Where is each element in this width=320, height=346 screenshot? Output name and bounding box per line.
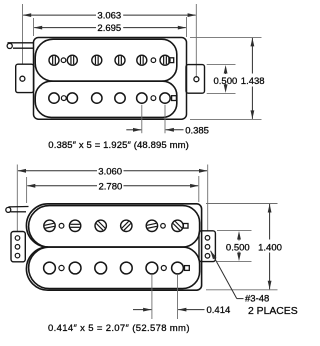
- svg-text:2 PLACES: 2 PLACES: [248, 306, 298, 317]
- slug pole 1 pickup 2: [44, 262, 56, 274]
- svg-text:3.060: 3.060: [98, 166, 122, 177]
- small hole A1: [61, 58, 66, 63]
- screw pole 4: [115, 55, 125, 65]
- small hole C1: [59, 223, 64, 228]
- slug pole 4 pickup 2: [120, 262, 132, 274]
- dimension line 0.385: [126, 129, 141, 131]
- small hole B2: [151, 96, 156, 101]
- pickup 1 top bobbin: [35, 39, 177, 81]
- dimension 1.400 extension lines: [206, 203, 278, 205]
- svg-text:0.385″ x 5 = 1.925″ (48.895 mm: 0.385″ x 5 = 1.925″ (48.895 mm): [48, 140, 189, 151]
- small hole C2: [161, 224, 166, 229]
- dimension line 2.695: [34, 27, 96, 29]
- slug pole 2 pickup 2: [69, 262, 81, 274]
- dimension line 3.060: [18, 170, 97, 172]
- svg-text:1.400: 1.400: [258, 242, 282, 253]
- screw pole 3 pickup 2: [95, 220, 106, 231]
- square marker B: [172, 96, 177, 101]
- slug pole 2: [67, 93, 77, 103]
- small hole A2: [151, 58, 156, 63]
- pickup 2 body outline: [26, 204, 201, 290]
- screw pole 2 pickup 2: [69, 220, 80, 231]
- small hole D2: [161, 266, 166, 271]
- pickup 1 bottom bobbin: [35, 81, 177, 117]
- dimension line 1.400: [269, 204, 271, 240]
- dimension 0.500 bottom arrows: [237, 231, 241, 240]
- dimension line 1.438: [251, 38, 253, 74]
- pickup 2 left mounting tab: [11, 232, 25, 262]
- slug pole 5: [137, 93, 147, 103]
- dimension 2.780 extension line left: [26, 177, 28, 203]
- svg-text:2.695: 2.695: [97, 23, 121, 34]
- screw pole 2: [67, 55, 77, 65]
- pickup 1 left mounting tab: [16, 64, 34, 92]
- dimension line 2.780: [27, 185, 97, 187]
- pickup 2 bottom bobbin: [29, 247, 200, 289]
- slug pole 5 pickup 2: [146, 262, 158, 274]
- slug pole 3: [92, 93, 102, 103]
- dimension 0.414 extension lines: [151, 275, 153, 319]
- pickup 2 right tab holes: [205, 236, 210, 241]
- pickup 2 top bobbin: [29, 206, 200, 248]
- svg-text:0.414″ x 5 = 2.07″ (52.578 mm): 0.414″ x 5 = 2.07″ (52.578 mm): [48, 323, 190, 334]
- pickup 1 left tab screw hole: [20, 76, 25, 81]
- screw pole 5 pickup 2: [146, 220, 157, 231]
- pickup 1 right tab screw hole: [194, 77, 199, 82]
- svg-text:#3-48: #3-48: [245, 294, 269, 305]
- screw pole 1 pickup 2: [44, 220, 55, 231]
- dimension 1.438 extension lines: [190, 36, 262, 38]
- dimension line 0.414: [133, 309, 151, 311]
- leader line to tab holes: [237, 298, 244, 300]
- dimension line 3.063: [23, 14, 96, 16]
- dimension 2.695 extension line right: [186, 17, 188, 37]
- square marker C: [183, 224, 188, 229]
- dimension 3.063 extension line right: [195, 4, 197, 76]
- svg-text:0.500: 0.500: [226, 242, 250, 253]
- small hole B1: [61, 96, 66, 101]
- svg-text:0.385: 0.385: [185, 125, 209, 136]
- dimension 0.500 bottom extension lines: [217, 229, 252, 231]
- screw pole 4 pickup 2: [121, 220, 132, 231]
- svg-text:0.500: 0.500: [214, 76, 238, 87]
- dimension 3.060 extension line right: [207, 165, 209, 231]
- svg-text:2.780: 2.780: [99, 181, 123, 192]
- slug pole 1: [49, 93, 59, 103]
- dimension 2.695 extension line left: [33, 18, 35, 36]
- slug pole 6: [160, 93, 170, 103]
- pickup 2 lead wire: [9, 206, 29, 208]
- dimension 0.500 arrows: [224, 65, 228, 74]
- pickup 1 baseplate outline: [34, 38, 187, 120]
- screw pole 6: [160, 55, 170, 65]
- svg-text:0.414: 0.414: [207, 305, 231, 316]
- screw pole 3: [92, 55, 102, 65]
- dimension 0.385 extension lines: [141, 105, 143, 133]
- dimension 2.780 extension line right: [198, 176, 200, 202]
- slug pole 6 pickup 2: [172, 262, 184, 274]
- screw pole 5: [137, 55, 147, 65]
- dimension 0.500 top extension lines: [207, 63, 236, 65]
- square marker D: [185, 266, 190, 271]
- square marker A: [169, 58, 174, 63]
- small hole D1: [59, 265, 64, 270]
- slug pole 4: [115, 93, 125, 103]
- screw pole 6 pickup 2: [172, 220, 183, 231]
- slug pole 3 pickup 2: [95, 262, 107, 274]
- pickup 1 right mounting tab: [186, 65, 205, 94]
- dimension 3.063 extension line left: [22, 4, 24, 64]
- pickup 2 left tab holes: [15, 236, 20, 241]
- pickup 2 right mounting tab: [199, 231, 215, 262]
- svg-text:1.438: 1.438: [241, 76, 265, 87]
- screw pole 1: [49, 55, 59, 65]
- pickup 1 lead wire: [8, 42, 34, 44]
- svg-text:3.063: 3.063: [97, 11, 121, 22]
- dimension 3.060 extension line left: [16, 165, 18, 232]
